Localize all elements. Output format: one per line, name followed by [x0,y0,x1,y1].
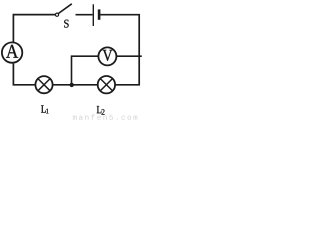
switch S blade [58,4,71,14]
battery long plate [92,4,94,26]
label L2 [97,106,105,115]
wire: L1 to junction to L2 [53,84,98,86]
lamp L2 circle [98,76,115,93]
label S [64,20,68,28]
switch S pivot [55,13,58,16]
wire: V to right rail [117,55,142,57]
battery short plate [98,9,101,19]
ammeter A circle [2,42,22,62]
voltmeter letter V [103,50,113,61]
wire: top-left corner, left rail top segment and top run to switch [13,15,55,42]
watermark manfen5.com [73,114,137,120]
wire: voltmeter branch from junction up and over to V [72,56,99,85]
label L1 [41,105,48,113]
lamp L1 cross [38,79,50,91]
ammeter letter A [6,45,18,58]
junction node dot [70,83,74,87]
lamp L1 circle [35,76,52,93]
wire: L2 to bottom-right corner [116,84,141,86]
wire: switch to battery [76,14,93,16]
wire: left rail below ammeter, bottom-left corner to lamp L1 [13,64,35,85]
lamp L2 cross [100,79,112,91]
voltmeter V circle [98,47,116,65]
wire: battery to top-right corner, right rail [100,15,139,85]
